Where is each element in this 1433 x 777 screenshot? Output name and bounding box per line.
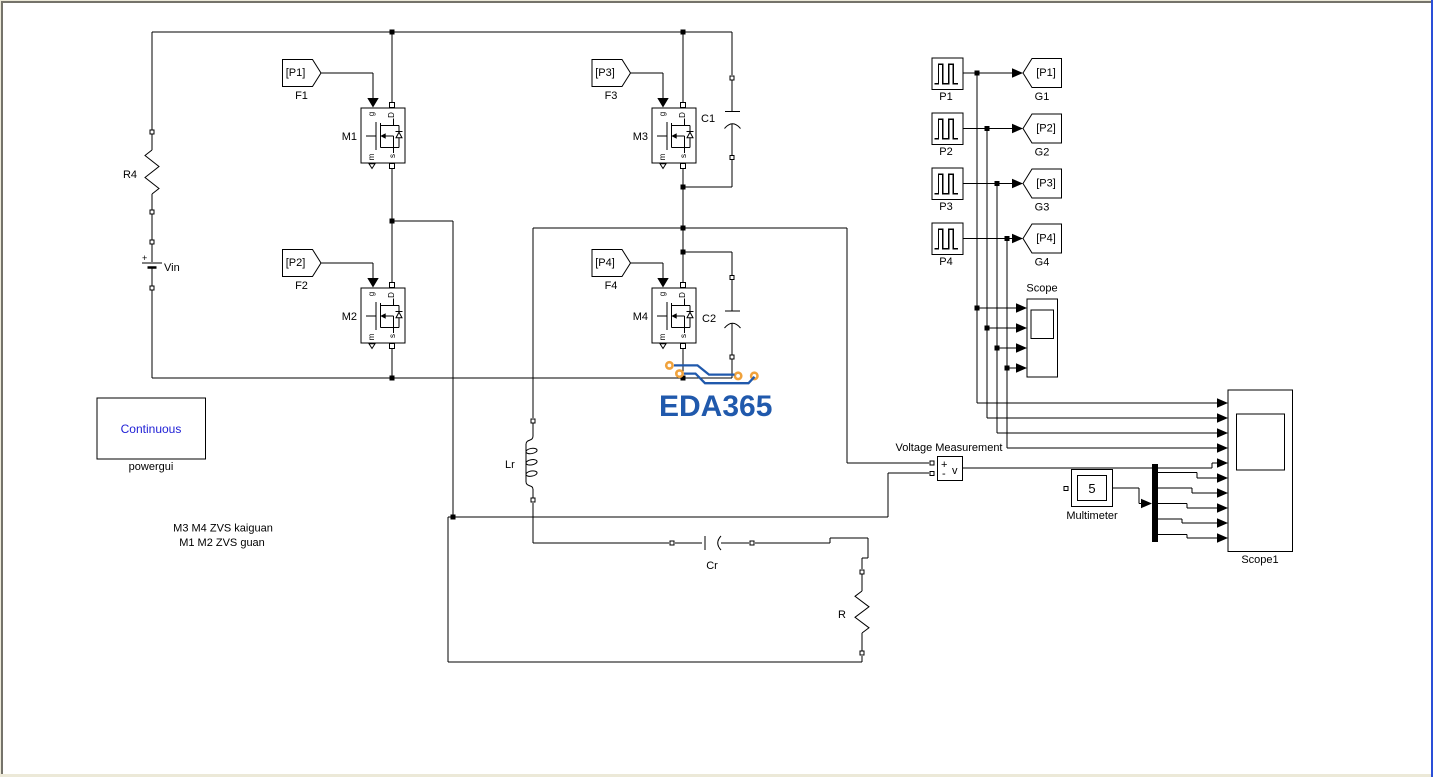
resistor R4 bbox=[123, 130, 159, 214]
arrow into Scope input4 bbox=[1016, 363, 1027, 372]
gate arrow M2 bbox=[367, 278, 378, 288]
wire node to voltage measurement minus bbox=[453, 473, 929, 517]
arrow into Scope input1 bbox=[1016, 303, 1027, 312]
arrow into G2 bbox=[1012, 124, 1023, 133]
svg-text:M2: M2 bbox=[342, 311, 357, 323]
svg-text:G2: G2 bbox=[1035, 147, 1050, 159]
svg-text:F1: F1 bbox=[295, 90, 308, 102]
svg-text:+: + bbox=[142, 253, 147, 263]
from tag F3 bbox=[592, 60, 631, 103]
wire Cr leads bbox=[675, 542, 830, 544]
wire F3 to M3 gate bbox=[630, 73, 663, 99]
wire F1 to M1 gate bbox=[321, 73, 373, 99]
arrow into demux bbox=[1141, 499, 1152, 508]
svg-text:F3: F3 bbox=[605, 90, 618, 102]
arrow into Scope1 input8 bbox=[1217, 503, 1228, 512]
goto tag G2 bbox=[1023, 114, 1062, 159]
wire tap to Scope input1 bbox=[977, 307, 1017, 309]
wire M3 source to M4 drain bbox=[682, 168, 684, 283]
svg-text:[P3]: [P3] bbox=[1036, 178, 1056, 190]
svg-text:G4: G4 bbox=[1035, 257, 1050, 269]
wire P2 tap vertical to Scope1 input2 bbox=[987, 129, 1217, 419]
arrow into Scope1 input10 bbox=[1217, 533, 1228, 542]
svg-text:Cr: Cr bbox=[706, 560, 718, 572]
svg-text:Scope: Scope bbox=[1026, 283, 1057, 295]
inductor Lr bbox=[505, 419, 537, 502]
gate arrow M4 bbox=[657, 278, 668, 288]
pulse generator P2 bbox=[932, 113, 963, 158]
wire bridge midpoint A branch bbox=[392, 221, 453, 517]
arrow into G4 bbox=[1012, 234, 1023, 243]
capacitor C1 bbox=[701, 76, 741, 160]
svg-text:Lr: Lr bbox=[505, 459, 515, 471]
wire demux out5 bbox=[1158, 535, 1217, 539]
wire R bottom return bbox=[448, 517, 862, 662]
junction node M3 drain on rail bbox=[681, 30, 686, 35]
wire demux out2 bbox=[1158, 488, 1217, 493]
wire M3 drain leg bbox=[682, 32, 684, 103]
svg-text:R: R bbox=[838, 609, 846, 621]
wire C2 branch bbox=[683, 252, 732, 360]
wire demux out3 bbox=[1158, 504, 1217, 509]
svg-text:[P3]: [P3] bbox=[595, 67, 615, 79]
svg-text:[P2]: [P2] bbox=[286, 257, 306, 269]
gate arrow M1 bbox=[367, 98, 378, 108]
pulse generator P3 bbox=[932, 168, 963, 213]
junction node scope feed3 bbox=[995, 346, 1000, 351]
powergui block bbox=[97, 398, 206, 473]
resistor R bbox=[838, 570, 869, 655]
arrow into Scope1 input7 bbox=[1217, 488, 1228, 497]
wire Cr to R top bbox=[830, 538, 868, 569]
svg-text:[P1]: [P1] bbox=[286, 67, 306, 79]
wire P2 output bbox=[963, 128, 1013, 130]
arrow into Scope1 input5 bbox=[1217, 458, 1228, 467]
pulse generator P1 bbox=[932, 58, 963, 103]
svg-text:C1: C1 bbox=[701, 113, 715, 125]
junction node scope feed2 bbox=[985, 326, 990, 331]
wire F2 to M2 gate bbox=[321, 263, 373, 279]
svg-text:M1: M1 bbox=[342, 131, 357, 143]
arrow into Scope input3 bbox=[1016, 343, 1027, 352]
svg-text:M4: M4 bbox=[633, 311, 648, 323]
scope block Scope bbox=[1026, 283, 1057, 378]
wire multimeter output to demux bbox=[1113, 488, 1142, 504]
svg-text:Voltage Measurement: Voltage Measurement bbox=[895, 442, 1002, 454]
wire P4 tap vertical to Scope1 input4 bbox=[1007, 239, 1217, 449]
junction node scope feed4 bbox=[1005, 366, 1010, 371]
junction node M2 source on bottom rail bbox=[390, 376, 395, 381]
wire C1 branch bbox=[683, 32, 732, 187]
junction node scope feed1 bbox=[975, 306, 980, 311]
wire P3 output bbox=[963, 183, 1013, 185]
junction node P2 tap bbox=[985, 126, 990, 131]
junction node P3 tap bbox=[995, 181, 1000, 186]
wire M1 drain leg bbox=[391, 32, 393, 103]
demux bar bbox=[1152, 464, 1158, 542]
svg-text:Vin: Vin bbox=[164, 262, 180, 274]
arrow into Scope1 input4 bbox=[1217, 443, 1228, 452]
svg-text:M1 M2 ZVS guan: M1 M2 ZVS guan bbox=[179, 537, 265, 549]
arrow into Scope input2 bbox=[1016, 323, 1027, 332]
wire M2 source to bottom rail bbox=[391, 348, 393, 378]
mosfet M3 bbox=[633, 103, 696, 169]
arrow into Scope1 input3 bbox=[1217, 428, 1228, 437]
svg-text:powergui: powergui bbox=[129, 461, 174, 473]
junction node sense line bbox=[681, 226, 686, 231]
wire tap to Scope input4 bbox=[1007, 367, 1017, 369]
svg-text:v: v bbox=[952, 465, 958, 477]
wire P1 output bbox=[963, 72, 1013, 74]
scope block Scope1 bbox=[1228, 390, 1293, 566]
capacitor C2 bbox=[702, 276, 741, 360]
wire P4 output bbox=[963, 238, 1013, 240]
wire M1 source to M2 drain bbox=[391, 168, 393, 283]
svg-text:[P4]: [P4] bbox=[1036, 233, 1056, 245]
goto tag G3 bbox=[1023, 169, 1062, 214]
svg-text:G3: G3 bbox=[1035, 202, 1050, 214]
EDA365 logo trace lower bbox=[684, 374, 755, 384]
wire midpoint B down to Lr bbox=[532, 228, 534, 418]
junction node return bbox=[451, 515, 456, 520]
svg-text:Scope1: Scope1 bbox=[1241, 554, 1278, 566]
arrow into Scope1 input9 bbox=[1217, 518, 1228, 527]
capacitor Cr bbox=[670, 536, 754, 572]
from tag F4 bbox=[592, 250, 631, 293]
wire M4 source to bottom rail bbox=[682, 348, 684, 378]
junction node M4 source on bottom rail bbox=[681, 376, 686, 381]
arrow into G3 bbox=[1012, 179, 1023, 188]
wire tap to Scope input3 bbox=[997, 347, 1017, 349]
junction node C1 bottom bbox=[681, 185, 686, 190]
wire demux out1 bbox=[1158, 473, 1217, 479]
junction node C2 top bbox=[681, 250, 686, 255]
arrow into G1 bbox=[1012, 68, 1023, 77]
svg-text:P2: P2 bbox=[939, 146, 952, 158]
svg-text:R4: R4 bbox=[123, 169, 137, 181]
arrow into Scope1 input2 bbox=[1217, 413, 1228, 422]
dc voltage source Vin bbox=[142, 240, 180, 290]
wire P3 tap vertical to Scope1 input3 bbox=[997, 184, 1217, 434]
wire tap to Scope input2 bbox=[987, 327, 1017, 329]
from tag F2 bbox=[283, 250, 322, 293]
svg-text:Multimeter: Multimeter bbox=[1066, 510, 1118, 522]
wire voltage measurement output to Scope1 input5 bbox=[963, 463, 1217, 468]
wire F4 to M4 gate bbox=[630, 263, 663, 279]
svg-text:M3 M4 ZVS kaiguan: M3 M4 ZVS kaiguan bbox=[173, 523, 273, 535]
svg-text:-: - bbox=[942, 468, 946, 480]
arrow into Scope1 input6 bbox=[1217, 473, 1228, 482]
wire bridge midpoint B to sense bbox=[533, 227, 847, 229]
junction node P1 tap bbox=[975, 71, 980, 76]
svg-text:5: 5 bbox=[1088, 481, 1095, 496]
goto tag G1 bbox=[1023, 59, 1062, 104]
svg-text:P3: P3 bbox=[939, 201, 952, 213]
gate arrow M3 bbox=[657, 98, 668, 108]
wire P1 tap vertical to Scope1 input1 bbox=[977, 73, 1217, 403]
svg-text:P1: P1 bbox=[939, 91, 952, 103]
EDA365 logo pads bbox=[666, 362, 757, 379]
wire demux out4 bbox=[1158, 519, 1217, 523]
mosfet M1 bbox=[342, 103, 405, 169]
arrow into Scope1 input1 bbox=[1217, 398, 1228, 407]
svg-text:EDA365: EDA365 bbox=[659, 390, 772, 423]
goto tag G4 bbox=[1023, 224, 1062, 269]
svg-text:F4: F4 bbox=[605, 280, 618, 292]
wire sense to voltage measurement plus bbox=[847, 228, 929, 463]
svg-text:F2: F2 bbox=[295, 280, 308, 292]
svg-text:[P1]: [P1] bbox=[1036, 67, 1056, 79]
svg-text:Continuous: Continuous bbox=[121, 422, 182, 436]
from tag F1 bbox=[283, 60, 322, 103]
voltage measurement block bbox=[895, 442, 1002, 481]
EDA365 logo trace upper bbox=[674, 365, 735, 374]
junction node M1 drain on rail bbox=[390, 30, 395, 35]
wire Lr to Cr bbox=[533, 503, 669, 543]
svg-text:[P2]: [P2] bbox=[1036, 123, 1056, 135]
wire top rail bbox=[152, 31, 732, 33]
multimeter block bbox=[1064, 470, 1118, 523]
svg-text:M3: M3 bbox=[633, 131, 648, 143]
svg-text:[P4]: [P4] bbox=[595, 257, 615, 269]
mosfet M2 bbox=[342, 283, 405, 349]
junction node P4 tap bbox=[1005, 236, 1010, 241]
wire left supply column bbox=[151, 32, 153, 378]
svg-text:G1: G1 bbox=[1035, 91, 1050, 103]
pulse generator P4 bbox=[932, 223, 963, 268]
svg-text:P4: P4 bbox=[939, 256, 952, 268]
wire bottom rail bbox=[152, 360, 732, 378]
junction node bridge midpoint A bbox=[390, 219, 395, 224]
svg-text:C2: C2 bbox=[702, 313, 716, 325]
mosfet M4 bbox=[633, 283, 696, 349]
